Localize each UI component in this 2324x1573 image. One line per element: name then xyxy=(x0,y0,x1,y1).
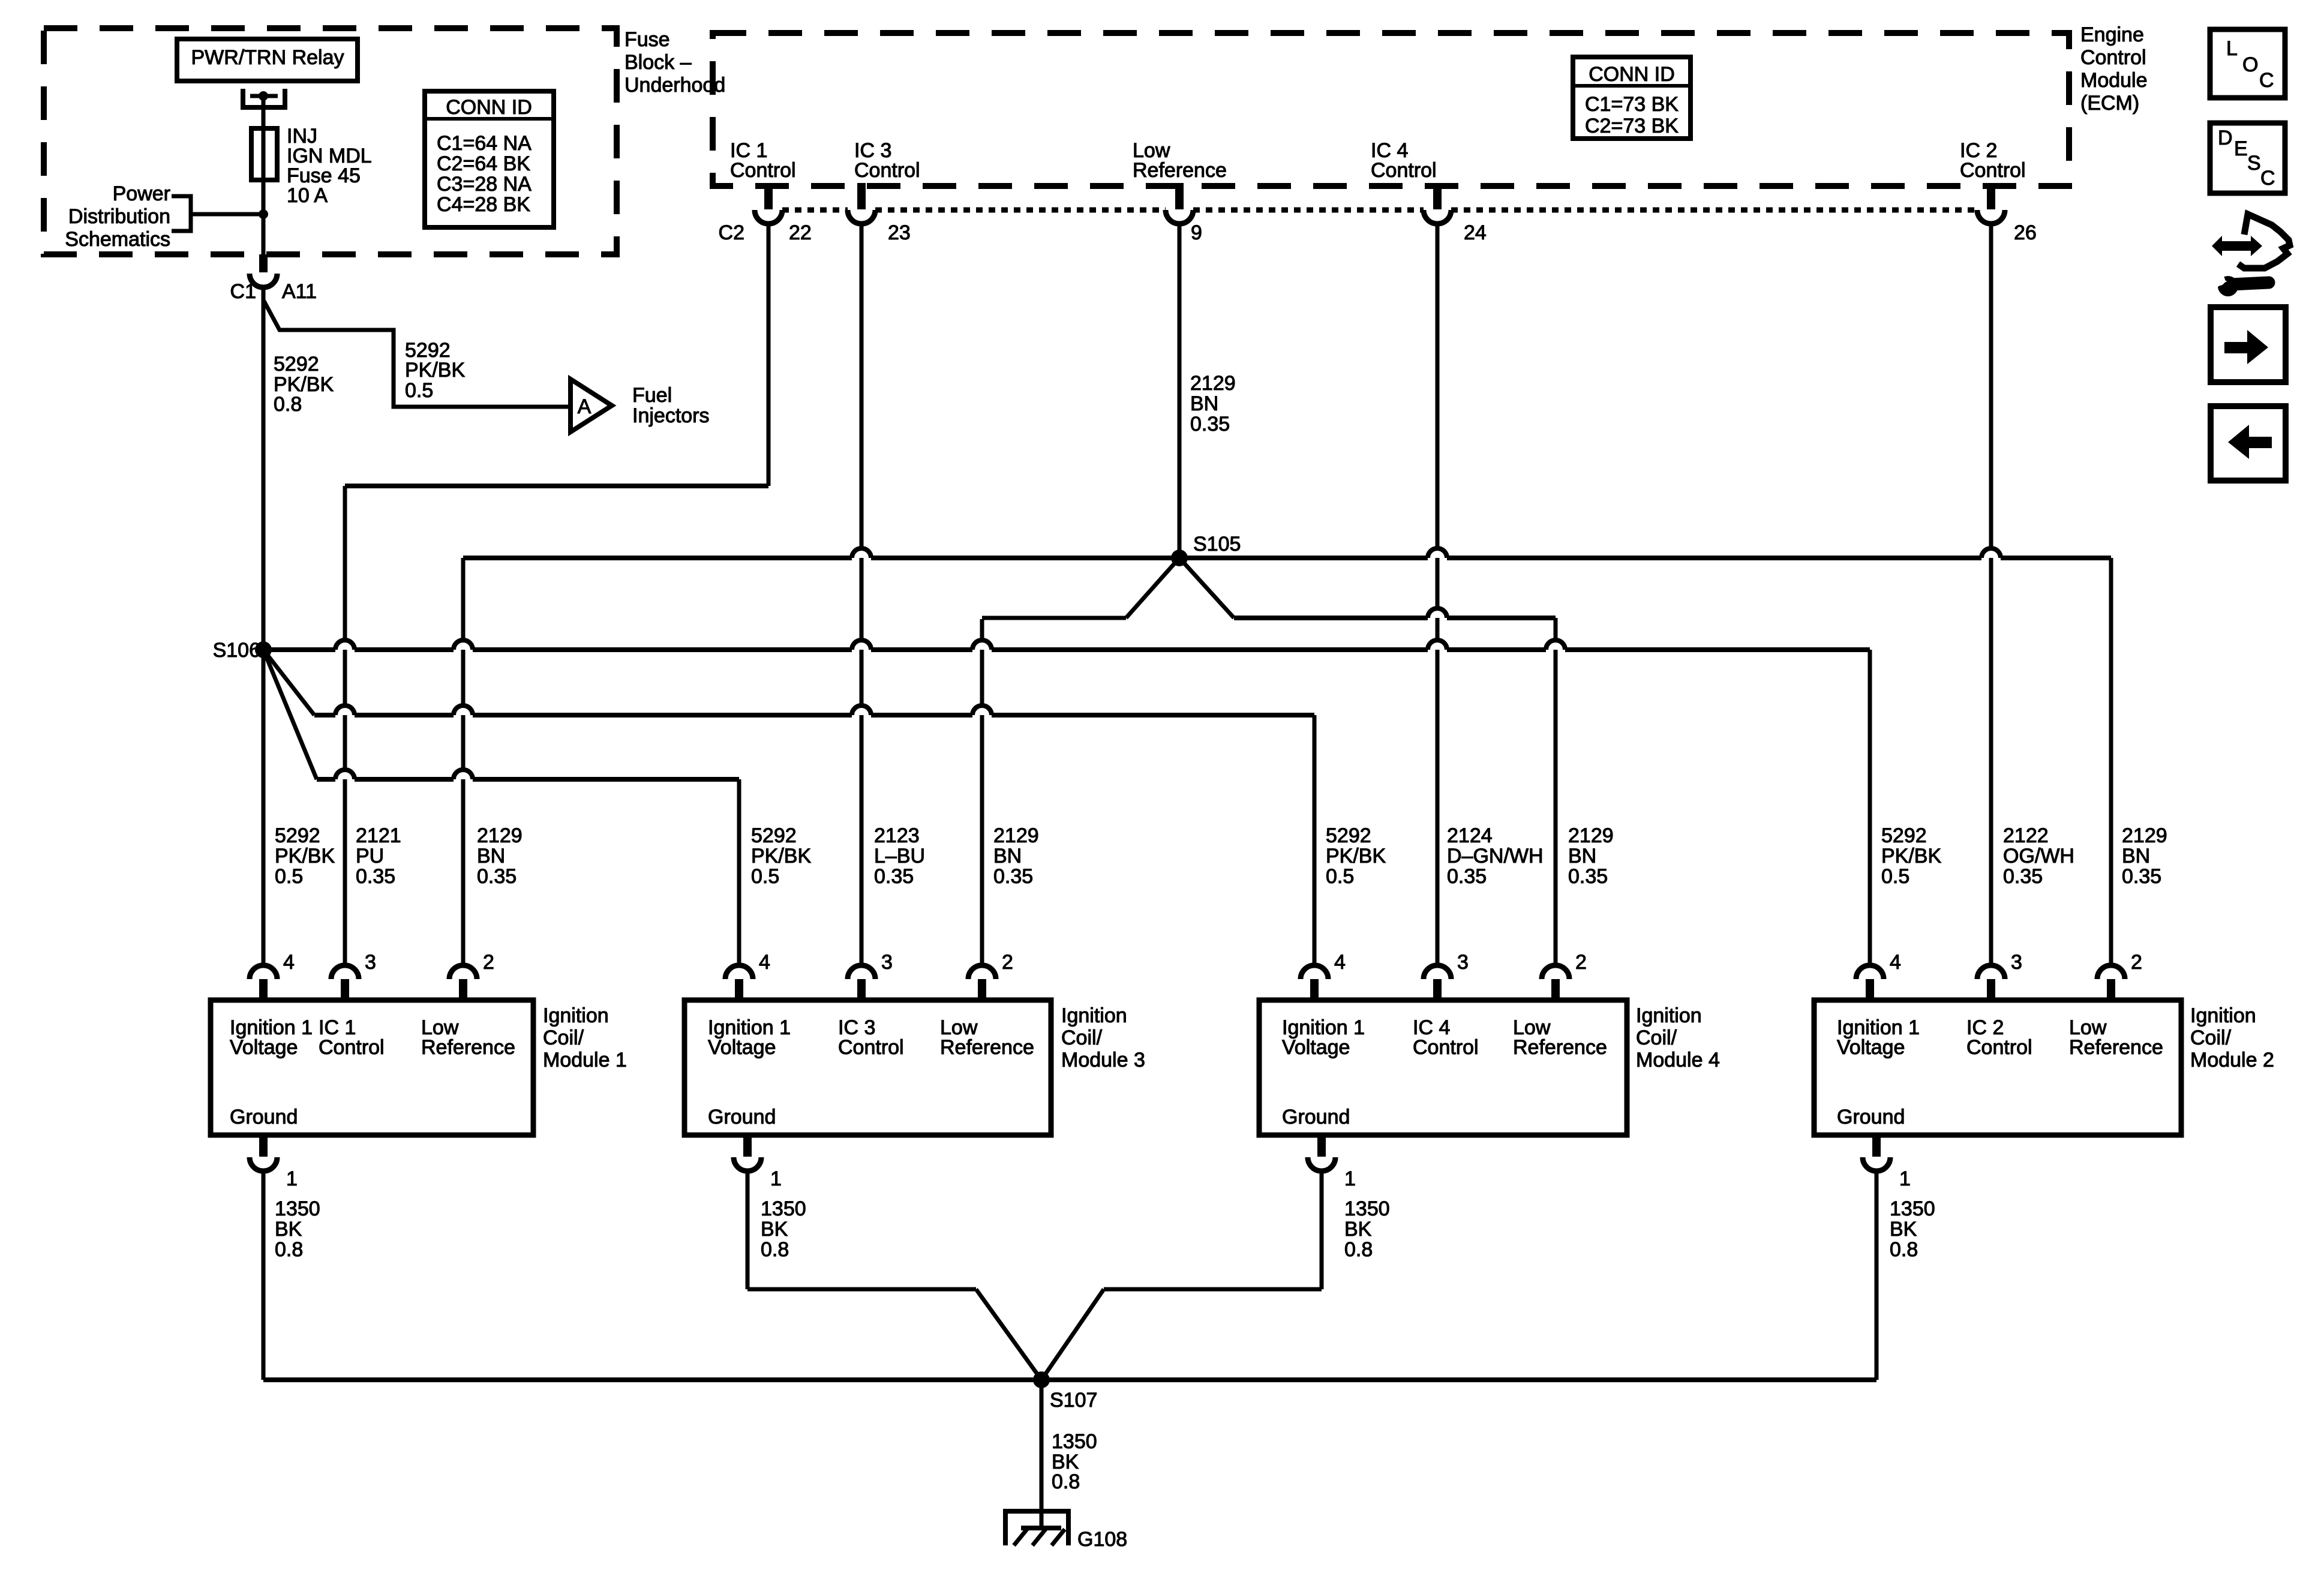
svg-text:1: 1 xyxy=(1344,1167,1356,1190)
svg-text:Control: Control xyxy=(1371,159,1437,182)
svg-text:Ignition: Ignition xyxy=(543,1004,609,1027)
svg-text:S107: S107 xyxy=(1050,1389,1097,1412)
svg-text:OG/WH: OG/WH xyxy=(2003,845,2074,867)
svg-text:CONN ID: CONN ID xyxy=(446,96,532,119)
svg-text:0.35: 0.35 xyxy=(2122,865,2161,888)
svg-text:BK: BK xyxy=(1890,1218,1917,1241)
svg-text:Ground: Ground xyxy=(1282,1106,1350,1128)
svg-text:S105: S105 xyxy=(1193,533,1241,556)
svg-text:C1: C1 xyxy=(230,280,256,303)
svg-text:2124: 2124 xyxy=(1447,824,1493,847)
svg-text:Injectors: Injectors xyxy=(632,404,710,427)
svg-text:Voltage: Voltage xyxy=(230,1036,298,1059)
svg-text:Control: Control xyxy=(1966,1036,2032,1059)
svg-text:BN: BN xyxy=(2122,845,2150,867)
svg-text:Module 2: Module 2 xyxy=(2190,1049,2274,1071)
svg-text:0.35: 0.35 xyxy=(1190,413,1230,436)
svg-text:BN: BN xyxy=(993,845,1022,867)
svg-text:0.5: 0.5 xyxy=(1881,865,1909,888)
svg-text:23: 23 xyxy=(888,221,911,244)
svg-text:L–BU: L–BU xyxy=(874,845,925,867)
svg-text:PWR/TRN Relay: PWR/TRN Relay xyxy=(191,46,344,69)
svg-text:E: E xyxy=(2234,137,2248,160)
svg-text:0.35: 0.35 xyxy=(1568,865,1608,888)
svg-text:1: 1 xyxy=(286,1167,298,1190)
svg-text:4: 4 xyxy=(1334,951,1346,974)
svg-text:Ground: Ground xyxy=(1837,1106,1905,1128)
svg-text:C1=73 BK: C1=73 BK xyxy=(1585,93,1679,116)
svg-text:1350: 1350 xyxy=(1890,1197,1935,1220)
svg-text:0.35: 0.35 xyxy=(993,865,1033,888)
svg-text:Coil/: Coil/ xyxy=(2190,1026,2232,1049)
svg-text:Block –: Block – xyxy=(624,51,692,74)
svg-text:Ignition: Ignition xyxy=(1636,1004,1702,1027)
svg-text:C2=64 BK: C2=64 BK xyxy=(437,152,530,175)
svg-text:PK/BK: PK/BK xyxy=(751,845,811,867)
svg-text:9: 9 xyxy=(1191,221,1202,244)
svg-text:0.35: 0.35 xyxy=(2003,865,2043,888)
svg-text:PK/BK: PK/BK xyxy=(275,845,335,867)
svg-text:5292: 5292 xyxy=(275,824,320,847)
svg-text:A: A xyxy=(578,395,591,418)
svg-text:2: 2 xyxy=(1002,951,1013,974)
svg-text:Schematics: Schematics xyxy=(65,228,170,251)
svg-text:10 A: 10 A xyxy=(287,184,328,207)
svg-text:1: 1 xyxy=(1899,1167,1911,1190)
svg-text:Coil/: Coil/ xyxy=(1636,1026,1677,1049)
svg-text:C: C xyxy=(2260,167,2275,190)
svg-text:0.8: 0.8 xyxy=(1344,1238,1373,1261)
svg-text:Control: Control xyxy=(838,1036,904,1059)
svg-text:PU: PU xyxy=(356,845,384,867)
svg-text:2: 2 xyxy=(483,951,494,974)
svg-text:2129: 2129 xyxy=(1190,372,1236,395)
svg-text:BK: BK xyxy=(761,1218,788,1241)
svg-text:Coil/: Coil/ xyxy=(543,1026,584,1049)
svg-text:Control: Control xyxy=(1960,159,2026,182)
svg-text:2: 2 xyxy=(2131,951,2142,974)
svg-text:0.8: 0.8 xyxy=(275,1238,303,1261)
svg-text:2: 2 xyxy=(1575,951,1587,974)
svg-text:0.35: 0.35 xyxy=(1447,865,1487,888)
svg-text:C3=28 NA: C3=28 NA xyxy=(437,173,532,196)
svg-text:BN: BN xyxy=(1568,845,1596,867)
svg-text:G108: G108 xyxy=(1077,1528,1127,1551)
svg-text:D–GN/WH: D–GN/WH xyxy=(1447,845,1544,867)
svg-text:0.5: 0.5 xyxy=(1326,865,1354,888)
svg-text:Control: Control xyxy=(2080,46,2146,69)
svg-text:1350: 1350 xyxy=(761,1197,806,1220)
svg-text:5292: 5292 xyxy=(751,824,797,847)
svg-text:0.8: 0.8 xyxy=(274,393,302,416)
svg-text:1: 1 xyxy=(770,1167,782,1190)
svg-text:1350: 1350 xyxy=(1344,1197,1390,1220)
svg-text:0.5: 0.5 xyxy=(275,865,303,888)
svg-text:26: 26 xyxy=(2014,221,2037,244)
svg-text:Reference: Reference xyxy=(421,1036,515,1059)
svg-text:5292: 5292 xyxy=(1326,824,1371,847)
svg-text:S: S xyxy=(2247,152,2261,175)
svg-text:Ground: Ground xyxy=(230,1106,298,1128)
svg-text:0.5: 0.5 xyxy=(405,379,433,402)
svg-text:5292: 5292 xyxy=(274,353,319,376)
svg-text:4: 4 xyxy=(759,951,770,974)
svg-text:A11: A11 xyxy=(282,280,317,303)
svg-text:C2=73 BK: C2=73 BK xyxy=(1585,115,1679,137)
svg-text:C: C xyxy=(2259,69,2274,92)
svg-text:Control: Control xyxy=(854,159,920,182)
svg-text:CONN ID: CONN ID xyxy=(1589,63,1675,86)
svg-text:Control: Control xyxy=(1413,1036,1479,1059)
svg-text:22: 22 xyxy=(789,221,812,244)
svg-text:C4=28 BK: C4=28 BK xyxy=(437,193,530,216)
svg-text:PK/BK: PK/BK xyxy=(405,359,465,382)
svg-text:C2: C2 xyxy=(719,221,744,244)
svg-text:Fuel: Fuel xyxy=(632,384,672,407)
svg-text:(ECM): (ECM) xyxy=(2080,92,2139,115)
svg-text:BN: BN xyxy=(477,845,505,867)
svg-text:0.8: 0.8 xyxy=(761,1238,789,1261)
svg-text:Module 1: Module 1 xyxy=(543,1049,627,1071)
svg-text:Reference: Reference xyxy=(1513,1036,1607,1059)
svg-text:PK/BK: PK/BK xyxy=(1881,845,1941,867)
svg-text:D: D xyxy=(2218,127,2233,149)
svg-text:4: 4 xyxy=(283,951,295,974)
svg-text:0.35: 0.35 xyxy=(477,865,517,888)
svg-text:1350: 1350 xyxy=(1052,1430,1097,1453)
svg-text:BK: BK xyxy=(275,1218,302,1241)
svg-text:Reference: Reference xyxy=(1133,159,1227,182)
svg-text:O: O xyxy=(2242,53,2258,76)
svg-text:Coil/: Coil/ xyxy=(1061,1026,1103,1049)
svg-text:2129: 2129 xyxy=(993,824,1039,847)
svg-text:0.8: 0.8 xyxy=(1052,1470,1080,1493)
svg-text:3: 3 xyxy=(2011,951,2022,974)
svg-text:3: 3 xyxy=(881,951,893,974)
svg-text:0.35: 0.35 xyxy=(356,865,395,888)
svg-text:3: 3 xyxy=(1457,951,1469,974)
svg-text:PK/BK: PK/BK xyxy=(1326,845,1386,867)
svg-text:Reference: Reference xyxy=(940,1036,1034,1059)
svg-text:0.8: 0.8 xyxy=(1890,1238,1918,1261)
svg-text:2129: 2129 xyxy=(1568,824,1614,847)
svg-text:Voltage: Voltage xyxy=(708,1036,776,1059)
svg-text:24: 24 xyxy=(1464,221,1487,244)
svg-text:BN: BN xyxy=(1190,392,1218,415)
svg-text:3: 3 xyxy=(365,951,376,974)
svg-text:Module 3: Module 3 xyxy=(1061,1049,1145,1071)
svg-text:2121: 2121 xyxy=(356,824,401,847)
svg-text:5292: 5292 xyxy=(1881,824,1927,847)
svg-text:Voltage: Voltage xyxy=(1837,1036,1905,1059)
svg-text:Control: Control xyxy=(319,1036,385,1059)
svg-text:Module 4: Module 4 xyxy=(1636,1049,1720,1071)
svg-text:1350: 1350 xyxy=(275,1197,320,1220)
svg-text:2123: 2123 xyxy=(874,824,920,847)
svg-text:Distribution: Distribution xyxy=(68,205,170,228)
svg-text:0.35: 0.35 xyxy=(874,865,914,888)
svg-text:Voltage: Voltage xyxy=(1282,1036,1350,1059)
svg-text:Ignition: Ignition xyxy=(1061,1004,1127,1027)
svg-text:L: L xyxy=(2226,37,2238,60)
svg-text:Module: Module xyxy=(2080,69,2148,92)
svg-text:4: 4 xyxy=(1890,951,1901,974)
svg-text:Engine: Engine xyxy=(2080,23,2144,46)
svg-text:Ground: Ground xyxy=(708,1106,776,1128)
svg-text:2129: 2129 xyxy=(2122,824,2167,847)
svg-text:Ignition: Ignition xyxy=(2190,1004,2256,1027)
svg-text:S106: S106 xyxy=(213,639,260,662)
svg-text:Reference: Reference xyxy=(2069,1036,2163,1059)
svg-text:0.5: 0.5 xyxy=(751,865,779,888)
svg-text:Fuse: Fuse xyxy=(624,28,670,51)
svg-text:2122: 2122 xyxy=(2003,824,2049,847)
svg-text:2129: 2129 xyxy=(477,824,523,847)
svg-text:Control: Control xyxy=(730,159,796,182)
svg-text:C1=64 NA: C1=64 NA xyxy=(437,132,532,155)
svg-text:Power: Power xyxy=(113,182,170,205)
svg-text:BK: BK xyxy=(1344,1218,1372,1241)
